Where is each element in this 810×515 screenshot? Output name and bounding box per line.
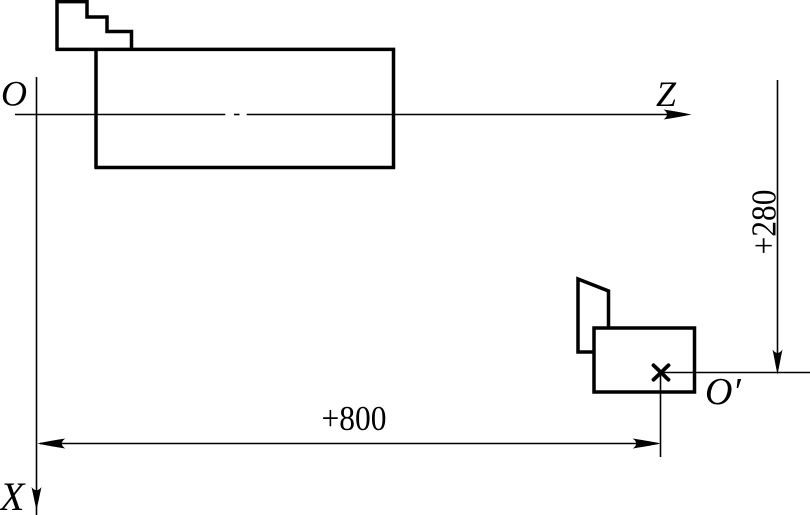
dimension line +800 horizontal (40, 443, 658, 445)
tool reference X mark (654, 365, 669, 379)
svg-text:+800: +800 (322, 400, 387, 439)
svg-text:O: O (1, 74, 27, 114)
+280 down arrowhead (773, 350, 783, 375)
svg-text:Z: Z (656, 74, 677, 114)
chuck body bottom edge (94, 166, 395, 170)
+800 left arrowhead (37, 439, 65, 449)
chuck jaw stepped outline (57, 2, 132, 50)
+800 right arrowhead (633, 439, 661, 449)
tool post rectangle (594, 328, 695, 392)
Z axis arrowhead (664, 110, 692, 120)
Z axis line with centerline break (15, 114, 686, 116)
svg-text:X: X (0, 474, 26, 515)
horizontal line from tool point O' (661, 372, 810, 374)
chuck body left edge (94, 49, 98, 167)
svg-text:+280: +280 (745, 190, 784, 255)
X axis line (36, 77, 38, 515)
svg-text:O′: O′ (705, 371, 741, 413)
dimension line +280 vertical (777, 80, 779, 369)
chuck body top edge (55, 48, 395, 52)
vertical extension line below tool point (660, 373, 662, 458)
chuck body right edge (392, 49, 396, 167)
X axis arrowhead (32, 487, 42, 510)
tool holder quadrilateral (578, 279, 609, 352)
